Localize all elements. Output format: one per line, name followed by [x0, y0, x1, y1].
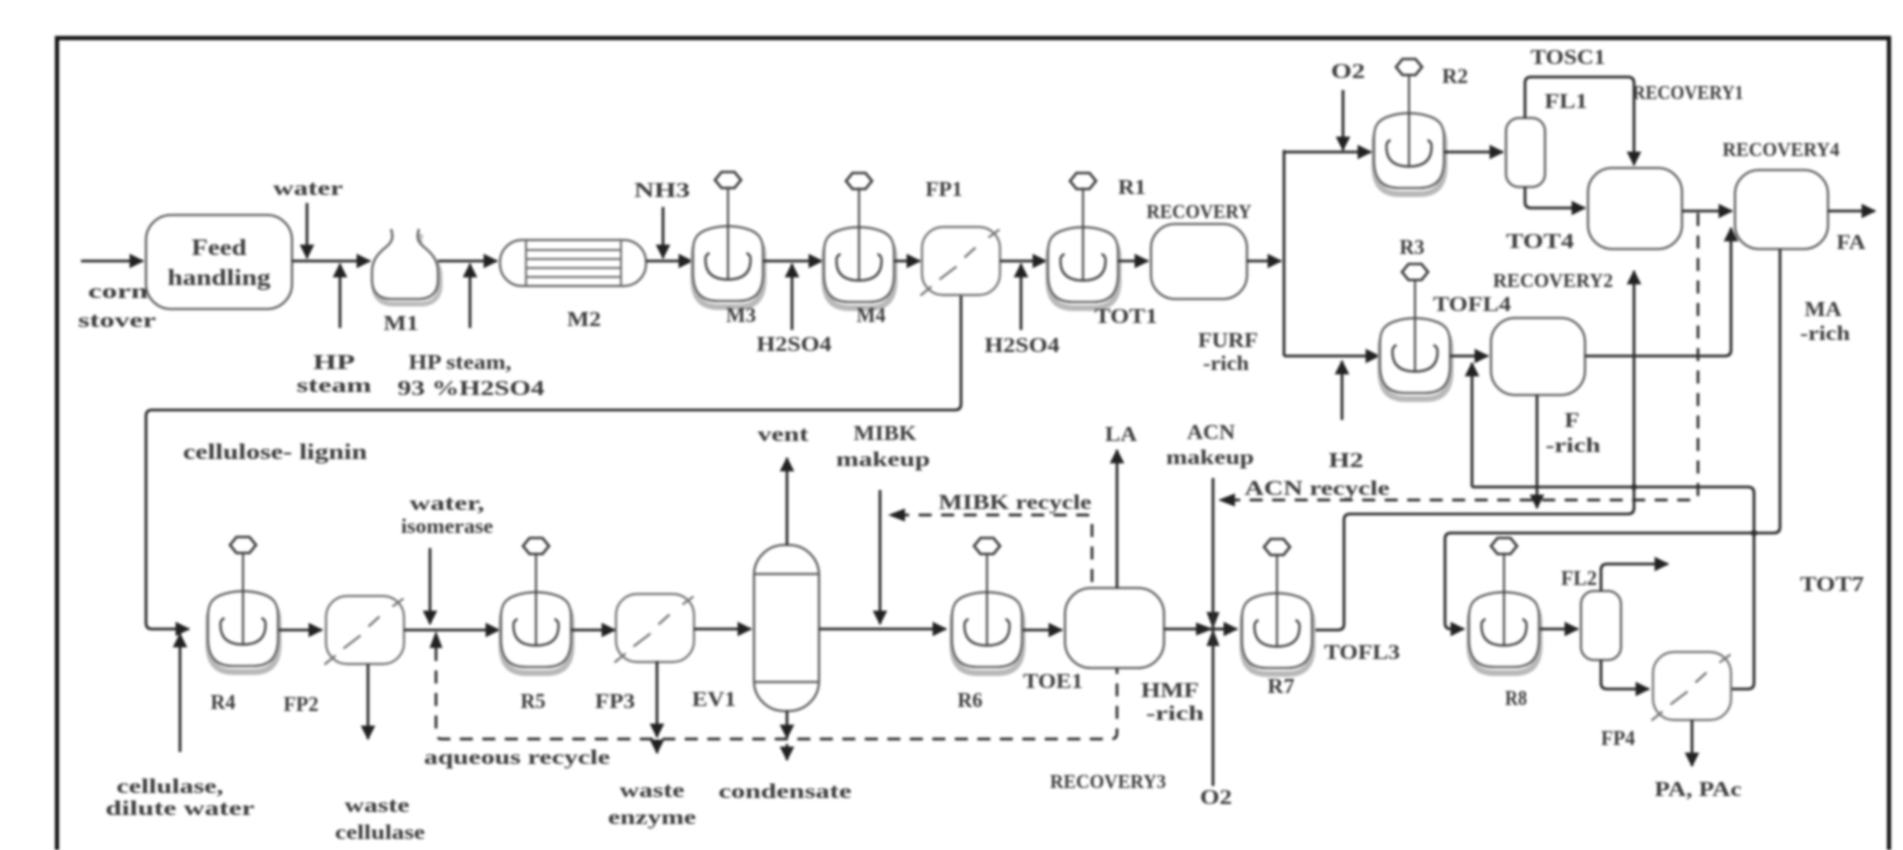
evaporator column EV1 — [754, 545, 819, 711]
wire R1 to RECOVERY — [1118, 260, 1148, 263]
wire M2 to M3 — [646, 260, 692, 263]
svg-text:ACN: ACN — [1187, 420, 1235, 444]
reactor R7 — [1242, 539, 1313, 674]
reactor R1 — [1048, 173, 1119, 308]
svg-text:MIBK recycle: MIBK recycle — [939, 490, 1092, 514]
svg-text:FURF: FURF — [1198, 328, 1258, 352]
svg-text:R5: R5 — [521, 689, 546, 713]
wire cellulase dilute water inlet — [179, 634, 182, 752]
svg-text:M3: M3 — [726, 303, 756, 327]
flash drum FL1 — [1506, 118, 1545, 187]
wire RECOVERY2 to RECOVERY4 — [1585, 228, 1731, 356]
wire FA product outlet — [1828, 210, 1875, 213]
wire TOFL3 line R7 to TOT4 feed — [1315, 487, 1634, 630]
wire HP steam inlet — [339, 264, 342, 328]
svg-text:waste: waste — [345, 793, 410, 817]
wire O2 inlet top — [1342, 90, 1345, 150]
unit TOE1 — [1065, 588, 1164, 668]
wire R8 to FL2 — [1540, 628, 1578, 631]
svg-text:TOFL4: TOFL4 — [1433, 292, 1512, 316]
svg-text:RECOVERY3: RECOVERY3 — [1050, 771, 1166, 793]
svg-text:handling: handling — [168, 265, 272, 290]
svg-text:water,: water, — [410, 491, 485, 515]
filter FP2 — [325, 596, 405, 665]
svg-text:-rich: -rich — [1203, 351, 1249, 375]
wire M3 to M4 — [763, 260, 822, 263]
wire M1 to M2 — [438, 260, 497, 263]
svg-text:cellulase,: cellulase, — [117, 774, 224, 798]
svg-text:TOFL3: TOFL3 — [1324, 640, 1400, 664]
wire TOE1 to mix junction X — [1164, 628, 1213, 631]
wire water inlet — [306, 203, 309, 258]
svg-text:H2: H2 — [1329, 448, 1364, 472]
svg-text:O2: O2 — [1331, 59, 1365, 83]
svg-text:LA: LA — [1105, 422, 1138, 446]
wire MA-rich RECOVERY4 to R8 — [1445, 249, 1780, 629]
svg-text:R2: R2 — [1442, 64, 1468, 88]
svg-text:MA: MA — [1805, 297, 1843, 321]
svg-text:aqueous recycle: aqueous recycle — [424, 745, 610, 769]
wire FP2 to R5 — [404, 629, 499, 632]
filter FP1 — [921, 227, 1001, 296]
svg-text:makeup: makeup — [1166, 445, 1254, 469]
svg-text:R7: R7 — [1268, 674, 1295, 698]
svg-text:makeup: makeup — [836, 447, 930, 471]
svg-text:R4: R4 — [211, 690, 236, 714]
wire FL2 bottoms to FP4 — [1601, 660, 1649, 689]
svg-text:-rich: -rich — [1800, 321, 1850, 345]
svg-text:FP4: FP4 — [1601, 726, 1635, 750]
svg-text:enzyme: enzyme — [608, 805, 696, 829]
svg-text:TOT4: TOT4 — [1506, 229, 1575, 253]
unit RECOVERY4 — [1735, 170, 1828, 249]
wire EV1 vent outlet — [786, 458, 789, 545]
svg-text:RECOVERY4: RECOVERY4 — [1723, 139, 1840, 161]
wire corn stover feed arrow — [81, 260, 143, 263]
arrowhead aqueous recycle up — [430, 631, 443, 648]
reactor R5 — [501, 538, 572, 673]
wire NH3 inlet — [662, 207, 665, 258]
unit Feed handling — [146, 215, 292, 309]
wire RECOVERY to splitter — [1247, 260, 1281, 263]
svg-text:corn: corn — [88, 279, 148, 303]
reactor M4 — [824, 173, 895, 308]
wire FP4 PA PAc outlet — [1691, 720, 1694, 766]
svg-text:R1: R1 — [1118, 175, 1146, 199]
svg-text:RECOVERY1: RECOVERY1 — [1633, 82, 1744, 104]
flash drum FL2 — [1581, 591, 1621, 660]
reactor R2 — [1374, 59, 1445, 194]
wire FP3 waste enzyme outlet — [656, 661, 659, 737]
unit TOT4 — [1588, 168, 1682, 249]
wire splitter to R3 — [1284, 355, 1379, 358]
wire R5 to FP3 — [571, 629, 615, 632]
dashed wire HMF-rich aqueous recycle RECOVERY3 — [436, 648, 1117, 739]
svg-text:stover: stover — [78, 308, 156, 332]
wire water isomerase inlet — [429, 548, 432, 624]
dashed wire ACN recycle — [1234, 213, 1698, 500]
wire H2 inlet — [1341, 361, 1344, 420]
wire FP2 waste cellulase outlet — [367, 664, 370, 739]
wire MIBK makeup inlet — [879, 490, 882, 624]
svg-text:R3: R3 — [1400, 235, 1425, 259]
wire FL1 bottoms to TOT4 — [1525, 187, 1585, 208]
wire FL2 overhead outlet — [1601, 564, 1668, 591]
filter FP4 — [1652, 652, 1732, 721]
svg-text:PA, PAc: PA, PAc — [1655, 777, 1742, 801]
svg-text:TOT1: TOT1 — [1095, 304, 1158, 328]
svg-text:TOSC1: TOSC1 — [1531, 45, 1606, 69]
wire ACN makeup and O2 vertical — [1212, 478, 1215, 786]
svg-text:dilute water: dilute water — [106, 796, 255, 820]
svg-text:F: F — [1565, 408, 1580, 432]
wire Feed handling to M1 — [292, 260, 370, 263]
svg-text:M2: M2 — [567, 307, 601, 331]
wire LA outlet — [1116, 450, 1119, 588]
wire FP1 to R1 — [1000, 260, 1046, 263]
svg-text:cellulose- lignin: cellulose- lignin — [183, 439, 367, 464]
svg-text:steam: steam — [297, 373, 373, 397]
wire splitter vertical — [1283, 150, 1286, 356]
heat exchanger M2 — [500, 240, 646, 286]
wire R6 to TOE1 — [1023, 629, 1062, 632]
svg-text:water: water — [273, 176, 343, 200]
reactor R4 — [208, 537, 279, 672]
junction dot TOT4 feed — [1631, 484, 1637, 490]
svg-text:condensate: condensate — [719, 779, 852, 803]
wire R4 to FP2 — [279, 629, 322, 632]
svg-text:FP2: FP2 — [284, 692, 319, 716]
svg-text:ACN recycle: ACN recycle — [1245, 476, 1390, 500]
reactor R8 — [1469, 538, 1540, 673]
dashed wire MIBK recycle — [902, 515, 1092, 582]
wire FP3 to EV1 — [694, 628, 751, 631]
reactor M3 — [693, 172, 764, 307]
svg-text:EV1: EV1 — [692, 687, 736, 711]
mixer M1 — [372, 229, 440, 304]
wire H2SO4 inlet 2 — [1020, 264, 1023, 330]
wire FP1 bottoms cellulose-lignin recycle to R4 — [146, 296, 961, 629]
svg-text:-rich: -rich — [1546, 433, 1601, 457]
reactor R3 — [1380, 264, 1451, 399]
wire R2 to FL1 — [1444, 151, 1503, 154]
wire TOT4 to RECOVERY4 — [1682, 210, 1732, 213]
wire TOSC1 overhead FL1 to TOT4 — [1525, 77, 1634, 165]
wire M4 to FP1 — [894, 260, 920, 263]
svg-text:M4: M4 — [857, 303, 886, 327]
wire X junction to R7 — [1213, 628, 1237, 631]
svg-text:H2SO4: H2SO4 — [757, 332, 833, 356]
svg-text:FA: FA — [1837, 230, 1867, 254]
svg-text:O2: O2 — [1200, 785, 1232, 809]
svg-text:HP: HP — [313, 350, 355, 374]
svg-text:FL2: FL2 — [1561, 566, 1597, 590]
wire splitter to R2 — [1284, 151, 1371, 154]
wire recycle up into TOFL4 junction — [1471, 363, 1474, 487]
wire EV1 to R6 — [819, 628, 946, 631]
wire F-rich from RECOVERY2 bottom — [1536, 395, 1539, 508]
svg-text:HP steam,: HP steam, — [409, 350, 512, 374]
unit RECOVERY2 TOFL4 — [1491, 318, 1585, 395]
svg-text:RECOVERY2: RECOVERY2 — [1493, 270, 1613, 292]
svg-text:M1: M1 — [384, 311, 419, 335]
svg-text:MIBK: MIBK — [854, 421, 918, 445]
svg-text:waste: waste — [620, 778, 685, 802]
svg-text:FP1: FP1 — [926, 177, 963, 201]
svg-text:TOE1: TOE1 — [1023, 669, 1083, 693]
reactor R6 — [952, 538, 1023, 673]
wire H2SO4 inlet 1 — [791, 264, 794, 330]
svg-text:cellulase: cellulase — [335, 820, 425, 844]
svg-text:H2SO4: H2SO4 — [985, 333, 1061, 357]
svg-text:Feed: Feed — [192, 235, 247, 260]
svg-text:93 %H2SO4: 93 %H2SO4 — [398, 376, 546, 400]
svg-text:NH3: NH3 — [634, 178, 690, 202]
svg-text:RECOVERY: RECOVERY — [1147, 201, 1253, 223]
junction dot TOT7 line crossing — [1751, 530, 1757, 536]
junction X arrowheads — [1196, 623, 1213, 636]
svg-text:HMF: HMF — [1141, 678, 1199, 702]
wire HP steam 93%H2SO4 inlet — [469, 264, 472, 328]
svg-text:FL1: FL1 — [1545, 89, 1588, 113]
svg-text:vent: vent — [758, 422, 809, 446]
wire EV1 condensate outlet — [786, 711, 789, 738]
wire TOT4 bottom feed — [1633, 271, 1636, 487]
svg-text:R8: R8 — [1505, 686, 1527, 710]
wire R3 to TOFL4 RECOVERY2 — [1450, 355, 1488, 358]
svg-text:R6: R6 — [958, 688, 983, 712]
wire FP4 overhead recycle line — [1472, 487, 1754, 689]
svg-text:isomerase: isomerase — [401, 514, 493, 538]
svg-text:TOT7: TOT7 — [1800, 572, 1864, 596]
svg-text:FP3: FP3 — [595, 689, 635, 713]
unit RECOVERY — [1151, 224, 1247, 299]
svg-text:-rich: -rich — [1146, 701, 1204, 725]
filter FP3 — [615, 594, 695, 663]
